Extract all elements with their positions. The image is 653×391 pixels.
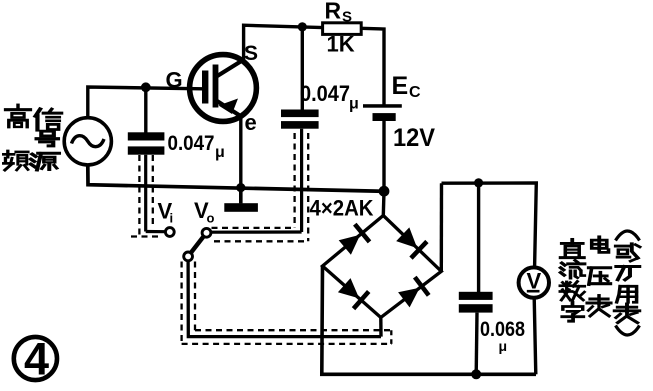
connector plug (191, 236, 204, 253)
node e-rail junction (236, 183, 245, 192)
node S-Rs junction (298, 22, 307, 31)
svg-text:4: 4 (24, 334, 49, 385)
label 直流数字电压表(或万用表) (560, 231, 640, 335)
wire to Vo terminal (211, 230, 301, 233)
diode bridge 4x2AK (323, 216, 442, 318)
svg-text:12V: 12V (393, 124, 435, 152)
diode D3 (lower-left) (338, 278, 369, 309)
wire bridge bottom stem (379, 318, 383, 337)
node G junction (141, 82, 151, 92)
wire junction down to cap 0.047u #2 (301, 27, 304, 110)
node bottom rail junction (471, 369, 481, 379)
shield dashes output cable (293, 133, 295, 228)
wire main bottom rail (88, 165, 384, 191)
svg-text:i: i (170, 211, 174, 226)
svg-text:4×2AK: 4×2AK (310, 196, 374, 221)
wire bridge right up (440, 183, 444, 271)
ground (224, 188, 258, 212)
wire cable to bridge bottom (188, 261, 381, 337)
wire down to cap 0.068u (477, 183, 480, 292)
capacitor 0.068u (459, 292, 493, 313)
svg-text:μ: μ (215, 144, 225, 161)
svg-text:o: o (207, 211, 215, 226)
diode D1 (upper-left) (339, 224, 370, 255)
wire cap to bottom rail (475, 313, 479, 375)
terminal Vo (202, 228, 211, 237)
wire meter to bottom rail (534, 298, 536, 375)
battery Ec 12V (363, 104, 402, 121)
voltmeter V (519, 267, 549, 297)
svg-text:e: e (245, 110, 257, 135)
node rail-bridge junction (379, 186, 390, 197)
wire to Vi terminal (146, 230, 166, 233)
svg-text:G: G (166, 68, 183, 93)
svg-text:μ: μ (499, 338, 508, 354)
wire rail to bridge top (382, 191, 386, 215)
diode D2 (upper-right) (396, 227, 427, 258)
capacitor 0.047u (input) (128, 132, 165, 154)
wire source top to gate (88, 87, 203, 118)
shield dashes cable (180, 262, 182, 344)
svg-text:S: S (342, 9, 352, 26)
wire cap down to Vo (crosses rail) (300, 129, 303, 232)
terminal Vi (165, 228, 174, 237)
wire S up to resistor (244, 25, 323, 60)
wire resistor to battery (361, 28, 384, 104)
svg-text:C: C (409, 84, 421, 101)
svg-text:1K: 1K (327, 32, 355, 57)
resistor Rs 1K (323, 23, 362, 35)
wire cap to Vi terminal (144, 155, 147, 232)
svg-text:0.047: 0.047 (168, 132, 215, 155)
wire top-right to meter (442, 183, 537, 266)
wire e down to rail (239, 115, 242, 188)
wire bridge left down and bottom rail (322, 266, 536, 374)
node top-right junction (474, 178, 483, 187)
svg-text:V: V (526, 269, 541, 294)
svg-text:0.047: 0.047 (300, 81, 350, 106)
svg-text:R: R (325, 0, 342, 24)
signal source label 高频信号源 (4, 105, 62, 170)
wire to capacitor 0.047u input (144, 87, 147, 132)
wire battery to rail (382, 121, 385, 191)
AC signal source (64, 118, 111, 165)
transistor V (MOSFET) (190, 55, 257, 122)
svg-text:S: S (244, 42, 258, 65)
figure number 4 (14, 334, 57, 385)
capacitor 0.047u (bypass) (281, 110, 319, 129)
diode D4 (lower-right) (398, 277, 429, 307)
svg-text:E: E (392, 72, 409, 100)
svg-text:μ: μ (349, 96, 359, 113)
shield dashes input cable (138, 155, 140, 237)
